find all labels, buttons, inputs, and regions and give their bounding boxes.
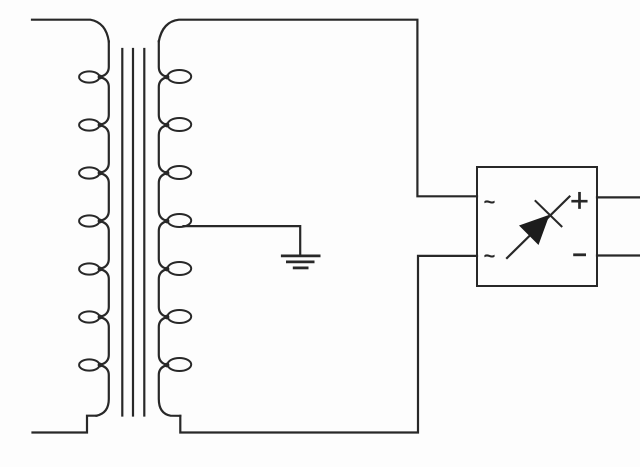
transformer T1 secondary winding: [159, 41, 191, 416]
svg-text:~: ~: [484, 246, 496, 268]
wire: primary bottom lead: [33, 416, 97, 433]
diode symbol inside bridge: [507, 197, 570, 259]
wire: center tap to ground: [184, 226, 301, 253]
wire: secondary bottom lead to bridge AC input 2: [180, 256, 477, 433]
wire: secondary top lead to bridge AC input 1: [159, 20, 477, 197]
label + positive output: [573, 193, 587, 207]
bridge rectifier BR1 body: [477, 167, 597, 286]
wire: &#8722; output lead: [597, 254, 640, 256]
wire: primary top lead: [32, 20, 109, 42]
transformer T1 primary winding: [79, 42, 109, 416]
transformer T1 core: [122, 49, 144, 416]
label &#8722; negative output: [575, 253, 585, 256]
svg-text:~: ~: [484, 192, 496, 214]
ground: [282, 256, 319, 268]
wire: + output lead: [597, 196, 640, 198]
